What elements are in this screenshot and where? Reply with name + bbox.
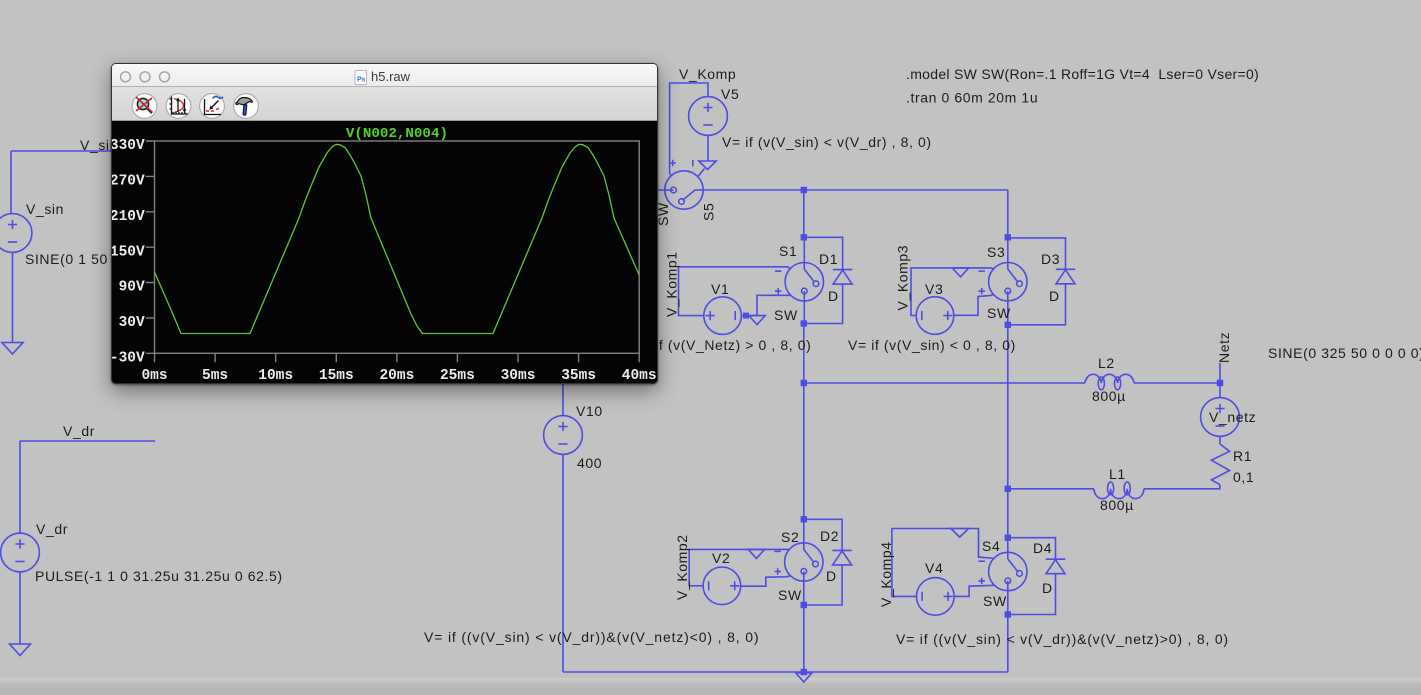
voltage source V3 bbox=[916, 297, 954, 335]
svg-text:15ms: 15ms bbox=[319, 368, 354, 383]
svg-text:150V: 150V bbox=[112, 244, 145, 260]
wire S1 bottom pin bbox=[803, 291, 805, 323]
S5 control minus mark bbox=[692, 160, 694, 166]
junction S3 rail at L1 wire bbox=[1005, 486, 1011, 492]
S4 control minus mark bbox=[979, 560, 985, 562]
wire S2 top pin bbox=[803, 519, 805, 549]
junction S3 top bbox=[1005, 234, 1011, 240]
svg-text:0ms: 0ms bbox=[141, 368, 167, 383]
svg-text:V= if (v(V_sin) < v(V_dr) , 8,: V= if (v(V_sin) < v(V_dr) , 8, 0) bbox=[722, 134, 932, 150]
wire to L2 bbox=[804, 382, 1085, 384]
voltage source V5 bbox=[689, 97, 728, 136]
wire V10 top bbox=[562, 384, 564, 416]
x axis ticks bbox=[155, 353, 640, 362]
svg-text:D3: D3 bbox=[1041, 251, 1060, 267]
svg-text:.tran 0 60m 20m 1u: .tran 0 60m 20m 1u bbox=[906, 90, 1038, 106]
ground V_dr bbox=[10, 644, 31, 656]
svg-text:V= if ((v(V_sin) < v(V_dr))&(v: V= if ((v(V_sin) < v(V_dr))&(v(V_netz)<0… bbox=[424, 629, 759, 645]
wire rail S3-bottom down to S4 bbox=[1007, 325, 1009, 538]
svg-text:Ps: Ps bbox=[357, 77, 366, 84]
S1 control minus mark bbox=[775, 270, 781, 272]
svg-text:400: 400 bbox=[577, 455, 602, 471]
svg-text:S1: S1 bbox=[779, 243, 797, 259]
wire rail S1-bottom down to S2 bbox=[803, 324, 805, 520]
switch S3 bbox=[989, 263, 1027, 301]
switch S4 bbox=[989, 552, 1027, 590]
svg-text:0,1: 0,1 bbox=[1233, 469, 1254, 485]
plot background bbox=[112, 121, 657, 383]
wire D1 bottom branch bbox=[804, 284, 843, 323]
junction S4 top bbox=[1005, 535, 1011, 541]
S5 control plus mark bbox=[670, 160, 676, 166]
icon zoom-off magnifier bbox=[136, 97, 152, 113]
ground V2 on wire bbox=[748, 549, 764, 558]
wire V_dr vertical to source bbox=[19, 441, 21, 533]
svg-text:S2: S2 bbox=[781, 529, 799, 545]
wire S5 left pin bbox=[560, 189, 674, 191]
diode D4 bbox=[1046, 558, 1065, 560]
svg-text:D: D bbox=[1049, 288, 1060, 304]
svg-text:V_Komp4: V_Komp4 bbox=[878, 541, 894, 607]
svg-text:V= if ((v(V_sin) < v(V_dr))&(v: V= if ((v(V_sin) < v(V_dr))&(v(V_netz)>0… bbox=[896, 631, 1229, 647]
svg-text:V_Komp2: V_Komp2 bbox=[674, 534, 690, 600]
wire D3 top branch bbox=[1008, 238, 1066, 269]
svg-text:10ms: 10ms bbox=[258, 368, 293, 383]
wire V2 plus to S2 control+ bbox=[741, 576, 791, 586]
ground bottom rail bbox=[796, 673, 812, 682]
svg-text:V_Komp3: V_Komp3 bbox=[895, 245, 911, 311]
svg-text:330V: 330V bbox=[112, 138, 145, 154]
wire S1 top pin bbox=[803, 237, 805, 269]
wire R1 to L1 bbox=[1144, 485, 1220, 489]
voltage source V2 bbox=[703, 567, 741, 605]
svg-text:210V: 210V bbox=[112, 209, 145, 225]
toolbar buttons bbox=[132, 94, 157, 119]
wire D4 bottom branch bbox=[1008, 574, 1056, 615]
ground V5 bbox=[699, 161, 716, 170]
svg-text:V2: V2 bbox=[712, 550, 730, 566]
svg-text:D1: D1 bbox=[819, 251, 838, 267]
junction node Netz bbox=[1217, 380, 1223, 386]
wire S2 bottom pin bbox=[803, 571, 805, 605]
wire S5 control- stub bbox=[698, 169, 705, 177]
wire L1 to rail bbox=[1008, 488, 1094, 490]
document icon in title bbox=[355, 71, 367, 85]
svg-text:V4: V4 bbox=[925, 560, 943, 576]
ground V_sin bbox=[2, 343, 23, 355]
inductor L2 bbox=[1085, 374, 1134, 383]
svg-text:PULSE(-1 1 0 31.25u 31.25u 0 6: PULSE(-1 1 0 31.25u 31.25u 0 62.5) bbox=[35, 568, 283, 584]
wire D2 bottom branch bbox=[804, 565, 842, 605]
diode D1 bbox=[833, 269, 852, 271]
junction S3 bottom bbox=[1005, 322, 1011, 328]
svg-text:SW: SW bbox=[774, 307, 798, 323]
svg-text:V_Komp1: V_Komp1 bbox=[664, 251, 680, 317]
wire V_sin to ground bbox=[12, 253, 14, 343]
diode D2 bbox=[832, 549, 851, 551]
wire D3 bottom branch bbox=[1008, 284, 1066, 325]
svg-text:SINE(0 325 50 0 0 0 0): SINE(0 325 50 0 0 0 0) bbox=[1268, 345, 1421, 361]
plot frame box bbox=[155, 141, 640, 353]
wire D1 top branch bbox=[804, 237, 843, 269]
wire V_netz to R1 bbox=[1219, 437, 1221, 445]
svg-text:L1: L1 bbox=[1109, 466, 1126, 482]
wire V1 plus to S1 control- bbox=[679, 267, 791, 316]
ground V3 on wire bbox=[952, 268, 968, 277]
wire V_dr to ground bbox=[19, 572, 21, 644]
svg-text:Netz: Netz bbox=[1216, 332, 1232, 363]
wire bottom rail bbox=[563, 671, 1008, 673]
svg-text:30V: 30V bbox=[119, 315, 145, 331]
svg-text:SW: SW bbox=[778, 587, 802, 603]
junction S2 bottom bbox=[801, 602, 807, 608]
S3 control plus mark bbox=[979, 288, 985, 294]
svg-text:35ms: 35ms bbox=[561, 368, 596, 383]
svg-text:V3: V3 bbox=[925, 281, 943, 297]
svg-text:V= if (v(V_Netz) > 0 , 8, 0): V= if (v(V_Netz) > 0 , 8, 0) bbox=[632, 337, 811, 353]
svg-text:.model SW SW(Ron=.1 Roff=1G Vt: .model SW SW(Ron=.1 Roff=1G Vt=4 Lser=0 … bbox=[906, 66, 1259, 82]
waveform trace V(N002,N004) bbox=[155, 144, 640, 333]
wire V3 minus to S3 control- bbox=[911, 268, 994, 316]
svg-text:L2: L2 bbox=[1098, 355, 1115, 371]
wire V_sin top horizontal bbox=[11, 150, 350, 152]
junction S1 bottom bbox=[801, 320, 807, 326]
wire S3 top pin bbox=[1007, 237, 1009, 269]
voltage source V_netz bbox=[1219, 383, 1221, 398]
junction mid rail at L2 wire bbox=[801, 380, 807, 386]
svg-text:90V: 90V bbox=[119, 280, 145, 296]
junction S1 top bbox=[801, 234, 807, 240]
svg-text:30ms: 30ms bbox=[501, 368, 536, 383]
S4 control plus mark bbox=[979, 578, 985, 584]
diode D3 bbox=[1056, 268, 1075, 270]
plot window h5.raw bbox=[111, 63, 658, 384]
voltage source V10 bbox=[544, 416, 583, 455]
svg-text:S4: S4 bbox=[982, 538, 1000, 554]
wire V1 minus to ground node bbox=[741, 315, 757, 317]
wire V3 plus to S3 control+ bbox=[954, 294, 994, 315]
switch S2 bbox=[785, 543, 823, 581]
svg-text:V5: V5 bbox=[721, 86, 739, 102]
junction top rail at S1 branch bbox=[801, 187, 807, 193]
wire S3 bottom pin bbox=[1007, 291, 1009, 325]
svg-text:D: D bbox=[828, 288, 839, 304]
icon hammer bbox=[236, 98, 253, 116]
voltage source V1 bbox=[704, 297, 742, 335]
svg-text:V_Komp: V_Komp bbox=[679, 66, 736, 82]
svg-text:R1: R1 bbox=[1233, 448, 1252, 464]
wire V5 top loop to S5 control+ bbox=[670, 83, 708, 176]
svg-text:5ms: 5ms bbox=[202, 368, 228, 383]
voltage source V_dr bbox=[1, 533, 40, 572]
svg-text:-30V: -30V bbox=[112, 351, 145, 367]
wire V4 plus to S4 control+ bbox=[954, 585, 994, 596]
voltage source V_sin bbox=[0, 214, 32, 253]
svg-text:D: D bbox=[826, 568, 837, 584]
icon autorange axes bbox=[170, 97, 189, 115]
svg-text:800µ: 800µ bbox=[1092, 388, 1126, 404]
svg-text:SW: SW bbox=[983, 593, 1007, 609]
wire S4 bottom pin bbox=[1007, 581, 1009, 615]
wire S5 right pin to bus bbox=[696, 189, 1008, 191]
S3 control minus mark bbox=[979, 270, 985, 272]
wire S4 bottom to rail bbox=[1007, 615, 1009, 673]
junction S2 top bbox=[801, 516, 807, 522]
switch S5 bbox=[665, 171, 703, 209]
svg-text:V_netz: V_netz bbox=[1209, 409, 1256, 425]
svg-text:800µ: 800µ bbox=[1100, 497, 1134, 513]
svg-text:S5: S5 bbox=[701, 203, 717, 221]
svg-text:D4: D4 bbox=[1033, 540, 1052, 556]
wire V5 to ground bbox=[707, 136, 709, 161]
junction bottom ground node bbox=[801, 669, 807, 675]
wire L2 to Netz node bbox=[1134, 382, 1220, 384]
wire V_dr top horizontal bbox=[20, 440, 155, 442]
traffic light buttons bbox=[121, 72, 131, 82]
svg-text:V_dr: V_dr bbox=[63, 423, 95, 439]
svg-text:V_dr: V_dr bbox=[36, 521, 68, 537]
svg-text:V= if (v(V_sin) < 0 , 8, 0): V= if (v(V_sin) < 0 , 8, 0) bbox=[848, 337, 1016, 353]
ground V1 bbox=[749, 316, 765, 325]
wire V10 down to bottom rail bbox=[562, 455, 564, 673]
y axis ticks bbox=[146, 141, 155, 353]
svg-text:25ms: 25ms bbox=[440, 368, 475, 383]
inductor L1 bbox=[1094, 489, 1144, 499]
wire node Netz stub up bbox=[1219, 363, 1221, 383]
svg-text:270V: 270V bbox=[112, 174, 145, 190]
S2 control minus mark bbox=[775, 550, 781, 552]
svg-text:S3: S3 bbox=[987, 244, 1005, 260]
S2 control plus mark bbox=[775, 568, 781, 574]
wire S2 bottom to rail bbox=[803, 605, 805, 672]
svg-text:V10: V10 bbox=[576, 403, 603, 419]
svg-text:40ms: 40ms bbox=[622, 368, 657, 383]
wire D2 top branch bbox=[804, 519, 842, 550]
icon plot-settings bbox=[205, 96, 224, 114]
svg-text:D2: D2 bbox=[820, 528, 839, 544]
voltage source V4 bbox=[917, 578, 955, 616]
svg-text:V_sin: V_sin bbox=[26, 201, 64, 217]
wire S3 branch from rail bbox=[1007, 190, 1009, 237]
svg-text:D: D bbox=[1042, 580, 1053, 596]
junction S4 bottom bbox=[1005, 611, 1011, 617]
wire V_sin vertical to source bbox=[10, 151, 12, 214]
svg-text:V1: V1 bbox=[711, 281, 729, 297]
wire S4 top pin bbox=[1007, 538, 1009, 559]
dock shadow strip at bottom bbox=[0, 678, 1421, 695]
S1 control plus mark bbox=[775, 288, 781, 294]
wire ground node to S1 control+ bbox=[757, 295, 791, 315]
switch S1 bbox=[785, 263, 823, 301]
wire D4 top branch bbox=[1008, 538, 1056, 560]
svg-text:V(N002,N004): V(N002,N004) bbox=[346, 126, 448, 142]
svg-text:SW: SW bbox=[987, 305, 1011, 321]
svg-text:20ms: 20ms bbox=[379, 368, 414, 383]
wire V4 minus to S4 control- bbox=[892, 529, 994, 597]
ground V4 on wire bbox=[951, 529, 969, 538]
wire V2 minus to S2 control- bbox=[689, 549, 790, 586]
junction V1 ground node bbox=[743, 313, 749, 319]
wire top rail down to S1 bbox=[803, 190, 805, 237]
resistor R1 bbox=[1211, 444, 1229, 485]
